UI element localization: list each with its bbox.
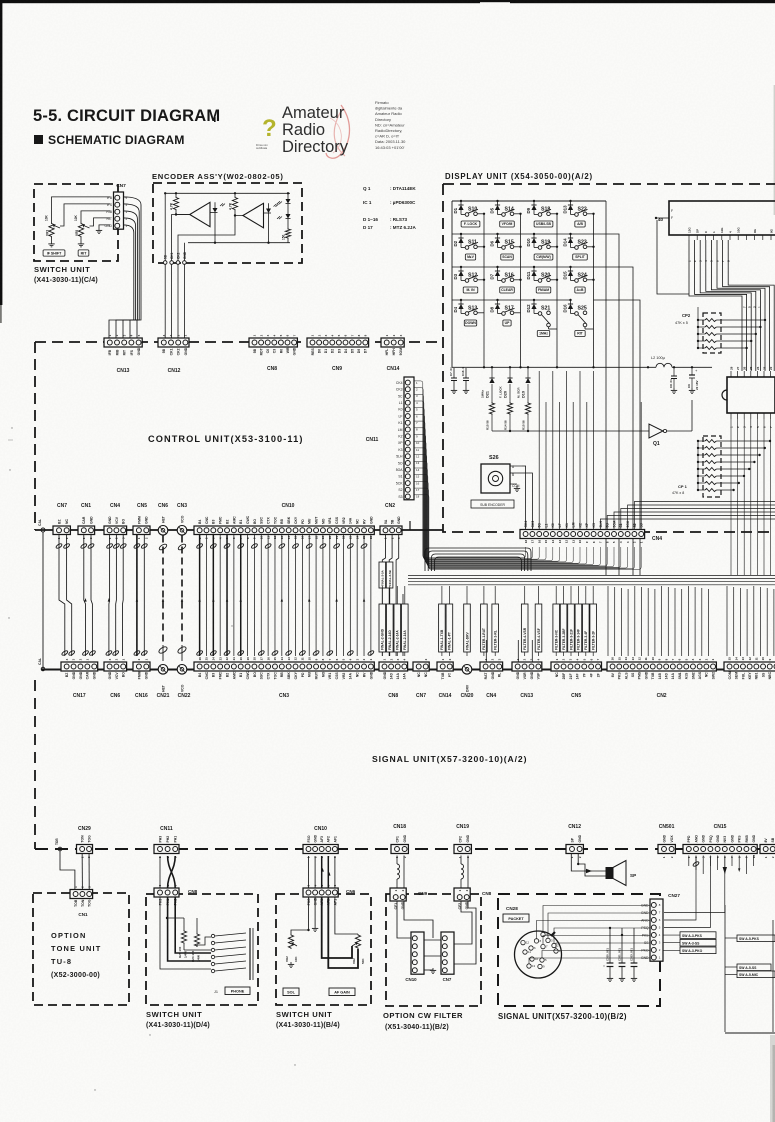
connector CN16 signal	[133, 658, 150, 699]
wires CN5 to CN16	[133, 535, 148, 657]
top strips junction dots	[0, 0, 1, 1]
diode D4	[453, 300, 464, 313]
connector CN11 dashed	[154, 826, 179, 858]
label SPLIT	[573, 254, 588, 260]
scan edge bottom right mottle	[770, 1035, 775, 1122]
switch S21	[534, 306, 557, 330]
connector CN8 signal	[379, 658, 408, 699]
diode D9	[526, 201, 537, 214]
connector CN1 control bottom	[78, 503, 95, 539]
control unit title	[148, 434, 303, 444]
connector CN12 dashed	[566, 824, 583, 858]
label FINAL-2-14A second	[402, 604, 409, 652]
label FINAL-1-PT	[446, 604, 453, 652]
diode D20	[499, 366, 513, 398]
encoder assy box	[153, 183, 302, 263]
connector CN6 coax HET	[158, 503, 168, 535]
switch S12	[461, 273, 484, 283]
signal unit top border	[41, 669, 775, 671]
wires CN29 to CN1 tone	[60, 851, 89, 890]
connector CN1 signal partial	[724, 657, 775, 680]
label FILTER-1-RAT	[481, 604, 488, 652]
diode D16	[562, 300, 573, 313]
diode D7	[489, 267, 500, 280]
photo transistor 1	[210, 202, 225, 220]
connector CN8 switch D4	[154, 884, 198, 905]
label FILTER-3-21F	[568, 604, 575, 652]
diode D6	[489, 234, 500, 247]
coax wire VCO	[177, 536, 187, 662]
wires cw filter	[397, 901, 476, 970]
connector CN19	[454, 824, 471, 858]
capacitor C351 .001	[617, 928, 625, 976]
label F. LOCK	[461, 221, 480, 227]
connector CN501	[658, 824, 675, 858]
switch S17	[498, 306, 521, 316]
label FILTER-3-14F	[575, 604, 582, 652]
connector CN5 signal	[551, 658, 602, 699]
connector CN10 cw vertical	[405, 932, 424, 982]
encoder output pins	[163, 261, 186, 265]
potentiometer VR3 10K	[45, 214, 61, 241]
switch S14	[498, 207, 521, 217]
dashed interconnect line	[35, 848, 775, 850]
diode D19	[517, 366, 531, 398]
connector CN27	[641, 893, 680, 961]
ground C9	[689, 388, 695, 393]
wires CN4 to CN6 signal	[105, 535, 127, 657]
label FINAL-2-14D	[387, 604, 394, 652]
encoder assy title	[152, 172, 284, 181]
label M. IN	[463, 287, 478, 293]
diode D15	[562, 267, 573, 280]
IC uPD6300C	[722, 366, 775, 428]
DIN connector CN28 circle	[515, 931, 562, 978]
label FM/AM	[536, 287, 551, 293]
resistor R24 100 1/4W	[191, 933, 201, 962]
switch S25	[571, 306, 594, 330]
label A=B	[575, 287, 585, 293]
label PACKET	[503, 914, 529, 922]
display bottom bus	[452, 366, 712, 368]
wires switch unit to CN7	[52, 197, 111, 228]
scan specks	[8, 427, 605, 1090]
wires S26 to CN4	[522, 466, 532, 530]
label FILTER-4-VSR	[521, 604, 528, 652]
label CW(N/W)	[534, 254, 553, 260]
diode D1	[453, 201, 464, 214]
signature text block	[375, 100, 406, 150]
resistor network CP1 47Kx8	[672, 436, 721, 497]
connector CN14 signal	[437, 658, 453, 699]
label FILTER-1-RL	[492, 604, 499, 652]
connector CN6 signal	[104, 658, 127, 699]
connector CN4 signal	[480, 658, 503, 699]
label FINAL-DRV	[464, 604, 471, 652]
scan edge top bar	[0, 0, 775, 4]
ground VR3	[48, 242, 54, 247]
stub wires CN13 CN4 extra pins	[486, 640, 532, 662]
encoder internal connection wires	[164, 192, 270, 262]
label CLEAR	[500, 287, 515, 293]
label FILTER-3-4F	[583, 604, 590, 652]
switch S24	[571, 273, 594, 283]
diode D3	[453, 267, 464, 280]
switch S22	[571, 207, 594, 217]
label FINAL-1-TXB	[439, 604, 446, 652]
resistor R14	[503, 398, 512, 431]
connector CN14 control	[381, 334, 404, 372]
connector CN9 control	[307, 334, 369, 372]
label RIT	[78, 250, 89, 256]
node TOB	[55, 838, 62, 851]
ground cw filter	[430, 968, 436, 973]
label M▸V	[465, 254, 475, 260]
capacitor C7 .01	[449, 367, 457, 388]
wires right edge	[725, 905, 775, 1033]
signal unit title	[372, 754, 527, 764]
ground C7	[451, 388, 457, 393]
labels SW A-3	[664, 932, 717, 954]
encoder output wires	[165, 264, 184, 338]
label USB/LSB	[534, 221, 553, 227]
label UP	[503, 320, 511, 326]
label FINAL-3-5A	[379, 562, 386, 588]
text CN28	[506, 906, 518, 911]
diode D14	[562, 234, 573, 247]
switch S19	[534, 240, 557, 250]
bus elbow from CN4	[424, 545, 531, 571]
connector CN1 tone unit	[70, 886, 93, 917]
switch S11	[461, 240, 484, 250]
label FILTER-4-VSF	[535, 604, 542, 652]
diode D13	[562, 201, 573, 214]
wires into final filter labels	[382, 586, 593, 656]
connector CN8 control	[249, 334, 297, 372]
connector CN8 cw filter	[454, 888, 492, 909]
label RIT	[575, 331, 585, 337]
wires inside B4	[291, 897, 358, 968]
connector CN18	[391, 824, 408, 858]
display tube pin wires	[657, 220, 774, 371]
matrix column output wires	[483, 213, 595, 369]
label FINAL-3-5B	[386, 562, 393, 588]
labels SW A-5	[737, 935, 775, 978]
option tone unit box	[33, 893, 129, 1005]
op-amp comparator 1	[190, 202, 210, 226]
connector CN10 control bottom	[194, 503, 374, 539]
diode D11	[526, 267, 537, 280]
wires CN7 CN1 to CN17	[55, 535, 96, 657]
watermark Amateur Radio Directory	[256, 104, 350, 158]
capacitor C8 .01	[669, 367, 677, 388]
resistor R15	[485, 398, 494, 431]
braided wires CN11 to CN8	[160, 856, 175, 888]
label AF GAIN	[329, 988, 355, 996]
switch S23	[571, 240, 594, 250]
label DOWN	[464, 320, 476, 326]
rotary encoder S26	[481, 455, 527, 493]
connector CN4 display	[520, 520, 662, 543]
switch S20	[534, 273, 557, 283]
matrix row bus lines	[452, 200, 606, 301]
connector CN17 signal	[61, 658, 98, 699]
wires matrix to CN4 pins	[539, 371, 775, 530]
connector CN7 signal	[413, 658, 429, 699]
connector CN11 control	[366, 377, 420, 500]
title 5-5. CIRCUIT DIAGRAM	[33, 107, 220, 125]
connector CN3 signal	[194, 657, 374, 699]
wires CN2 to CN8 signal final	[382, 535, 403, 657]
resistor 150 encoder	[282, 219, 291, 243]
connector CN10 dashed	[303, 826, 338, 858]
ground VR2 10K	[288, 962, 294, 967]
label FILTER-3-2F	[590, 604, 597, 652]
connector CN15	[683, 824, 757, 858]
ground C353	[631, 976, 637, 981]
fluorescent display module	[655, 201, 775, 240]
resistor R25 100 1/4W	[178, 930, 188, 958]
tone unit text	[51, 931, 102, 979]
ground VR5	[78, 242, 84, 247]
node CAL	[38, 519, 53, 532]
connector CN12	[158, 334, 189, 374]
CP2 output wires	[716, 319, 766, 349]
potentiometer VR5 10K	[74, 214, 90, 241]
connector CN7 control bottom	[53, 503, 70, 539]
connector CN20 coax	[461, 665, 474, 700]
connector CN9 cw filter	[390, 888, 428, 909]
connector CN2 control bottom	[380, 503, 402, 539]
connector CN16 partial right	[760, 837, 775, 858]
diode D8	[489, 300, 500, 313]
coax wire HET	[158, 536, 168, 662]
encoder internal bus wires	[165, 193, 290, 242]
switch unit B4 box	[276, 894, 371, 1029]
wire bundle CN11 to CN4	[414, 381, 642, 569]
ground C351	[619, 934, 625, 982]
wires CN10 to CN3	[196, 535, 375, 657]
scan edge right top	[774, 85, 775, 215]
capacitor C9 22 16V	[687, 367, 699, 390]
label VFO/M	[500, 221, 515, 227]
coil CN19 feed	[461, 856, 468, 889]
wires CN7 to CN13	[109, 197, 141, 338]
connector CN22 coax	[177, 665, 190, 700]
wire CAL down	[38, 532, 45, 671]
scan edge left bar	[0, 0, 2, 323]
label PHONE	[225, 987, 250, 995]
wire CN12 to speaker	[571, 854, 606, 876]
label IF SHIFT	[43, 250, 65, 256]
speaker SP	[606, 861, 636, 886]
connector CN13	[104, 334, 142, 374]
encoder output labels	[164, 251, 187, 259]
label SCAN	[501, 254, 513, 260]
signal unit B2 box	[498, 894, 660, 1021]
label SUB ENCODER	[471, 500, 514, 508]
switch unit C/4 box	[34, 184, 118, 284]
label 1MHz	[537, 331, 549, 337]
coil CN18 feed	[397, 856, 404, 889]
ground S26	[514, 486, 520, 491]
wires DIN to CN27	[529, 906, 650, 964]
label SOL	[283, 988, 299, 996]
switch matrix bus	[451, 201, 453, 367]
ground C350	[607, 927, 613, 982]
connector CN21 coax	[157, 665, 170, 700]
diode D21	[481, 366, 495, 398]
connector CN7 cw vertical	[441, 932, 454, 982]
resistor 4.7K second	[229, 192, 238, 210]
connector CN5 control bottom	[133, 503, 150, 539]
diode D5	[489, 201, 500, 214]
capacitor C350 .001	[605, 928, 613, 976]
connector CN4 control bottom	[104, 503, 127, 539]
dashed vertical border left	[34, 680, 36, 849]
subtitle SCHEMATIC DIAGRAM	[34, 133, 185, 147]
phone jack J1	[211, 928, 253, 994]
wire bundle display to CN2	[608, 586, 774, 656]
thick wires CN8 to jack	[160, 897, 211, 969]
transistor Q1 buffer	[492, 400, 692, 447]
potentiometer VR2 10K	[285, 934, 298, 962]
ground C16	[463, 388, 469, 393]
wires CN10 to CN6 B4	[309, 856, 335, 888]
connector CN7 switch unit	[104, 183, 127, 229]
label FILTER-3-NC	[553, 604, 560, 652]
resistor 4.7K first	[170, 192, 179, 210]
label FINAL-2-14A first	[394, 604, 401, 652]
switch S18	[534, 207, 557, 217]
capacitor C16	[461, 367, 469, 388]
horizontal bus below display	[408, 576, 775, 585]
diode D10	[526, 234, 537, 247]
switch S16	[498, 273, 521, 283]
matrix right bus wires	[571, 201, 641, 575]
switch S15	[498, 240, 521, 250]
label A/B	[575, 221, 585, 227]
connector CN3 coax VCO	[177, 503, 187, 535]
switch S10	[461, 207, 484, 217]
diode D2	[453, 234, 464, 247]
option cw filter box	[383, 894, 481, 1031]
ground C8	[671, 388, 677, 393]
CP1 output wires	[716, 440, 771, 491]
label FILTER-3-2BF	[560, 604, 567, 652]
switch S13	[461, 306, 484, 316]
photo transistor 2	[264, 203, 279, 220]
parts list text	[363, 186, 416, 230]
resistor network CP2 47Kx5	[675, 307, 721, 353]
connector CN2 signal	[607, 657, 716, 699]
switch unit D4 box	[146, 894, 258, 1029]
connector CN13 signal	[512, 658, 542, 699]
op-amp comparator 2	[243, 203, 264, 228]
diode D12	[526, 300, 537, 313]
capacitor C353 .001	[629, 928, 637, 976]
potentiometer VR2 50K	[352, 934, 365, 964]
wires CN15 down	[664, 856, 754, 928]
control unit box	[35, 342, 443, 530]
inductor L2 100u	[647, 356, 693, 368]
ground GND pin	[96, 228, 102, 233]
connector CN6 switch B4	[303, 884, 356, 905]
LED encoder 2	[277, 204, 291, 220]
connector CN29	[77, 826, 93, 858]
LED encoder 1	[277, 192, 291, 204]
display unit title	[445, 172, 593, 181]
resistor R15	[521, 398, 530, 431]
label FINAL-2-GND	[379, 604, 386, 652]
display unit box	[443, 184, 775, 532]
IC bottom wires	[731, 419, 771, 575]
